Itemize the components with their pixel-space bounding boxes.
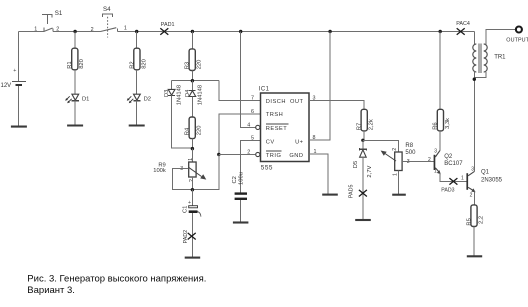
svg-text:PAC4: PAC4 <box>456 21 470 27</box>
svg-text:6: 6 <box>251 109 254 115</box>
wire (rail to R2) <box>136 32 138 49</box>
resistor R2 820 <box>129 48 147 70</box>
wire (junction down to RC node) <box>192 155 218 190</box>
transistor Q2 BC107 <box>428 149 463 175</box>
svg-text:IC1: IC1 <box>259 87 270 93</box>
wire (node to R9) <box>191 149 193 162</box>
svg-text:TR1: TR1 <box>494 55 506 61</box>
svg-text:RESET: RESET <box>266 126 287 132</box>
wire (loop top rail) <box>172 80 220 82</box>
wire (D5 to ground via PAD5) <box>362 157 364 220</box>
svg-text:D5: D5 <box>353 161 359 168</box>
node (R7/D5/R8) <box>361 139 364 142</box>
resistor R4 220 <box>185 117 203 139</box>
wire (R4 to node) <box>191 139 193 149</box>
svg-text:3,3k: 3,3k <box>445 118 451 129</box>
svg-text:PAD2: PAD2 <box>183 230 189 244</box>
wire (loop top to D3) <box>171 81 173 90</box>
svg-text:U+: U+ <box>295 139 304 145</box>
svg-text:R6: R6 <box>433 122 439 129</box>
wire (C1 to ground via PAD2) <box>191 213 193 257</box>
node (loop top) <box>191 79 194 82</box>
pad PAD5 <box>349 185 367 199</box>
svg-text:OUT: OUT <box>290 99 304 105</box>
wire (D1 to ground) <box>74 101 76 126</box>
wire (D4 to R4) <box>191 97 193 118</box>
svg-text:R5: R5 <box>466 218 472 225</box>
svg-text:BC107: BC107 <box>444 161 463 167</box>
svg-text:555: 555 <box>261 165 273 172</box>
svg-text:2: 2 <box>470 193 473 199</box>
transistor Q1 2N3055 <box>461 167 503 199</box>
wire (S1 to S4) <box>53 31 101 33</box>
LED D2 <box>127 94 151 103</box>
wire (rail to IC pin 4 RESET) <box>241 32 256 128</box>
svg-text:DISCH: DISCH <box>266 99 286 105</box>
svg-text:820: 820 <box>79 59 85 69</box>
svg-text:820: 820 <box>141 59 147 69</box>
wire (R9 wiper tied to bottom) <box>172 168 192 189</box>
wire (R9 to C1) <box>191 177 193 190</box>
svg-text:TRSH: TRSH <box>266 112 283 118</box>
svg-text:R2: R2 <box>129 61 135 68</box>
switch S4 <box>91 6 127 38</box>
wire (D2 to ground) <box>136 101 138 126</box>
svg-text:1: 1 <box>34 26 37 32</box>
wire (rail to R6) <box>439 32 441 110</box>
resistor R3 220 <box>185 49 203 71</box>
wire (R1 to D1) <box>74 70 76 94</box>
svg-text:Q2: Q2 <box>444 154 453 160</box>
svg-text:PAD5: PAD5 <box>349 185 355 199</box>
wire (R2 to D2) <box>136 70 138 94</box>
svg-text:R8: R8 <box>405 143 413 149</box>
node (R6 riser tap) <box>439 30 442 33</box>
svg-text:TRIG: TRIG <box>266 153 282 159</box>
node (R2 tap) <box>135 30 138 33</box>
svg-text:5: 5 <box>251 136 254 142</box>
svg-text:D3: D3 <box>164 90 170 97</box>
wire (rail to R1) <box>74 32 76 49</box>
wire (pin 2 TRIG stub) <box>219 154 256 156</box>
svg-text:1: 1 <box>124 25 127 31</box>
svg-text:2: 2 <box>91 27 94 33</box>
wire (R7 to node) <box>363 131 365 140</box>
node (RC node) <box>191 188 194 191</box>
wire (primary+secondary bottoms joined) <box>474 72 486 80</box>
svg-text:220: 220 <box>197 60 203 70</box>
svg-text:PAD3: PAD3 <box>441 188 454 194</box>
svg-text:D1: D1 <box>82 97 89 103</box>
wire (Q1 collector riser to transformer) <box>473 79 475 171</box>
wire (R3 to loop top rail) <box>191 71 193 81</box>
pad PAD3 <box>441 178 457 193</box>
resistor R1 820 <box>67 48 85 70</box>
diode D4 1N4148 <box>185 85 204 105</box>
pad PAD1 <box>160 22 174 35</box>
ground (IC1) <box>322 194 338 196</box>
svg-text:100k: 100k <box>153 168 166 174</box>
wire (C2 to ground) <box>240 200 242 222</box>
resistor R7 2,2k <box>357 109 375 131</box>
ground (D2) <box>129 124 145 126</box>
svg-text:2: 2 <box>392 148 398 151</box>
svg-text:2: 2 <box>428 157 431 163</box>
svg-text:1: 1 <box>461 175 464 181</box>
resistor R5 2,2 <box>466 205 484 227</box>
node (pin8 riser tap) <box>328 30 331 33</box>
svg-text:1N4148: 1N4148 <box>176 85 182 105</box>
wire (R6 to Q2 collector) <box>439 131 441 151</box>
wire (IC pin 6 down to TRIG net) <box>219 114 261 155</box>
potentiometer R8 500 <box>381 143 416 176</box>
svg-text:1: 1 <box>392 173 398 176</box>
switch S1 <box>34 10 63 33</box>
svg-text:+: + <box>13 68 16 74</box>
potentiometer R9 100k <box>153 158 206 182</box>
svg-text:2,7V: 2,7V <box>367 166 373 178</box>
svg-text:R1: R1 <box>67 61 73 68</box>
svg-text:500: 500 <box>405 150 416 156</box>
wire (Q1 emitter to R5) <box>473 191 475 205</box>
wire (D3 to loop bottom) <box>172 96 193 149</box>
svg-text:2,2: 2,2 <box>478 216 484 224</box>
svg-text:S1: S1 <box>55 10 63 17</box>
node (pins 2+6 junction) <box>217 153 220 156</box>
wire (node to R8 top) <box>363 140 399 152</box>
ground (D1) <box>67 124 83 126</box>
wire (R5 to ground) <box>473 227 475 257</box>
svg-text:3: 3 <box>471 167 474 173</box>
svg-text:2N3055: 2N3055 <box>481 178 503 184</box>
ground (R5) <box>467 255 482 257</box>
node (R1 tap) <box>73 30 76 33</box>
node (R3 tap) <box>191 30 194 33</box>
svg-text:+: + <box>188 200 191 206</box>
transformer TR1 <box>473 32 506 74</box>
svg-text:PAD1: PAD1 <box>161 22 175 28</box>
ground (R8) <box>392 194 406 196</box>
svg-text:CV: CV <box>266 139 275 145</box>
svg-text:1: 1 <box>434 169 437 175</box>
svg-text:D2: D2 <box>144 97 151 103</box>
svg-text:Рис. 3. Генератор высокого нап: Рис. 3. Генератор высокого напряжения. <box>27 273 206 284</box>
svg-text:Q1: Q1 <box>481 169 490 175</box>
wire (loop top to D4) <box>191 81 193 91</box>
svg-text:100u: 100u <box>239 172 245 185</box>
ground (C1) <box>185 257 201 259</box>
battery B1 12V <box>1 32 26 127</box>
op-amp/timer IC1 555 <box>247 87 316 172</box>
wire (rail to R3) <box>191 32 193 49</box>
svg-text:220: 220 <box>197 126 203 136</box>
wire (R8 to ground) <box>398 171 400 195</box>
svg-text:3: 3 <box>434 149 437 155</box>
svg-text:C1: C1 <box>183 206 189 213</box>
wire (IC pin 5 CV to C2) <box>241 141 261 193</box>
pad PAC4 <box>456 21 470 35</box>
ground (battery) <box>11 126 27 128</box>
svg-text:C2: C2 <box>232 176 238 183</box>
capacitor C2 100u <box>232 172 247 200</box>
wire (pin 3 OUT to R7) <box>309 100 364 109</box>
wire (pin 8 U+ to rail) <box>309 32 330 141</box>
svg-text:R3: R3 <box>185 62 191 69</box>
wire (node to D5) <box>362 140 364 149</box>
svg-text:12V: 12V <box>1 83 12 89</box>
pad PAD2 <box>183 230 196 244</box>
wire (R8 wiper to Q2 base) <box>402 161 434 163</box>
wire (Q2 emitter to Q1 base via PAD3) <box>440 173 466 182</box>
node (TR1 bottom) <box>473 78 476 81</box>
svg-text:1N4148: 1N4148 <box>198 85 204 105</box>
svg-text:GND: GND <box>289 153 303 159</box>
wire (loop top to IC pin 7) <box>219 81 260 101</box>
svg-text:3: 3 <box>180 166 183 172</box>
ground (D5) <box>355 219 371 221</box>
zener D5 2,7V <box>353 148 373 178</box>
pin 4 (bubble) <box>256 125 260 129</box>
LED D1 <box>65 94 89 103</box>
svg-text:S4: S4 <box>103 6 111 13</box>
wire (S4 to transformer, main +12V rail) <box>117 31 474 33</box>
capacitor C1 (polarized) <box>183 200 201 216</box>
svg-text:R4: R4 <box>185 127 191 135</box>
svg-text:Вариант 3.: Вариант 3. <box>27 285 75 296</box>
wire (pin 1 GND to ground) <box>309 154 328 194</box>
output terminal OUTPUT <box>506 27 528 44</box>
node (loop bottom / R9 top) <box>191 147 194 150</box>
pin 2 (bubble) <box>256 152 260 156</box>
node (RESET riser tap) <box>239 30 242 33</box>
svg-text:4: 4 <box>247 122 250 128</box>
wire (battery to S1) <box>19 31 44 33</box>
ground (C2) <box>233 221 249 223</box>
svg-text:D4: D4 <box>185 89 191 97</box>
svg-text:R7: R7 <box>357 123 363 130</box>
svg-text:7: 7 <box>251 95 254 101</box>
svg-text:1: 1 <box>188 158 194 161</box>
wire (secondary top to OUTPUT) <box>486 30 515 45</box>
svg-text:OUTPUT: OUTPUT <box>506 37 528 43</box>
svg-text:2: 2 <box>189 179 195 182</box>
resistor R6 3,3k <box>433 109 451 131</box>
diode D3 1N4148 <box>164 85 182 105</box>
svg-text:2,2k: 2,2k <box>369 119 375 130</box>
